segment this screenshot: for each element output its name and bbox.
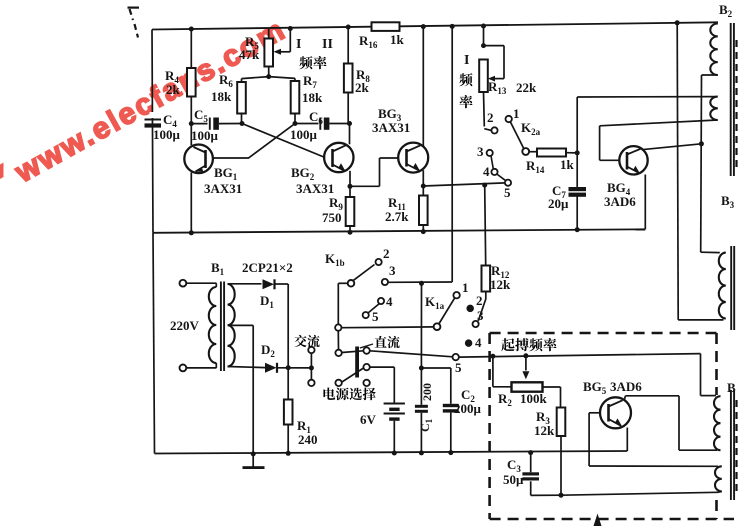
svg-text:18k: 18k bbox=[211, 89, 232, 104]
svg-text:2k: 2k bbox=[355, 80, 370, 95]
svg-text:3AD6: 3AD6 bbox=[610, 379, 642, 394]
svg-text:750: 750 bbox=[322, 210, 342, 225]
svg-text:4: 4 bbox=[475, 335, 482, 350]
svg-text:I: I bbox=[464, 53, 469, 68]
svg-text:100k: 100k bbox=[520, 391, 548, 406]
svg-text:3AX31: 3AX31 bbox=[204, 181, 242, 196]
svg-text:100μ: 100μ bbox=[290, 127, 318, 142]
svg-text:100μ: 100μ bbox=[153, 127, 181, 142]
svg-text:2: 2 bbox=[476, 293, 483, 308]
svg-text:3AX31: 3AX31 bbox=[372, 120, 410, 135]
svg-text:6V: 6V bbox=[360, 412, 377, 427]
svg-text:1: 1 bbox=[513, 106, 520, 121]
svg-text:47k: 47k bbox=[239, 47, 260, 62]
svg-text:200: 200 bbox=[420, 383, 434, 401]
svg-text:12k: 12k bbox=[490, 277, 511, 292]
svg-text:3: 3 bbox=[389, 263, 396, 278]
svg-text:4: 4 bbox=[386, 294, 393, 309]
svg-text:3AX31: 3AX31 bbox=[296, 181, 334, 196]
svg-text:1k: 1k bbox=[390, 32, 405, 47]
svg-text:B: B bbox=[727, 380, 736, 395]
svg-text:2.7k: 2.7k bbox=[385, 209, 409, 224]
svg-text:2: 2 bbox=[487, 110, 494, 125]
svg-text:200μ: 200μ bbox=[454, 401, 482, 416]
svg-text:4: 4 bbox=[483, 164, 490, 179]
svg-text:3: 3 bbox=[477, 144, 484, 159]
svg-text:18k: 18k bbox=[302, 90, 323, 105]
svg-text:5: 5 bbox=[504, 185, 511, 200]
svg-text:2k: 2k bbox=[166, 82, 181, 97]
svg-text:240: 240 bbox=[298, 432, 318, 447]
svg-text:1: 1 bbox=[462, 280, 469, 295]
svg-text:2CP21×2: 2CP21×2 bbox=[242, 260, 293, 275]
svg-text:22k: 22k bbox=[516, 80, 537, 95]
svg-text:100μ: 100μ bbox=[191, 128, 219, 143]
svg-text:220V: 220V bbox=[170, 318, 200, 333]
svg-text:5: 5 bbox=[455, 360, 462, 375]
svg-text:3: 3 bbox=[477, 308, 484, 323]
svg-text:I: I bbox=[296, 37, 301, 52]
svg-text:20μ: 20μ bbox=[548, 196, 569, 211]
svg-text:3AD6: 3AD6 bbox=[604, 194, 636, 209]
svg-text:2: 2 bbox=[383, 246, 390, 261]
svg-text:II: II bbox=[322, 37, 333, 52]
svg-text:1k: 1k bbox=[560, 157, 575, 172]
svg-text:50μ: 50μ bbox=[503, 472, 524, 487]
svg-text:12k: 12k bbox=[534, 423, 555, 438]
svg-text:5: 5 bbox=[372, 309, 379, 324]
